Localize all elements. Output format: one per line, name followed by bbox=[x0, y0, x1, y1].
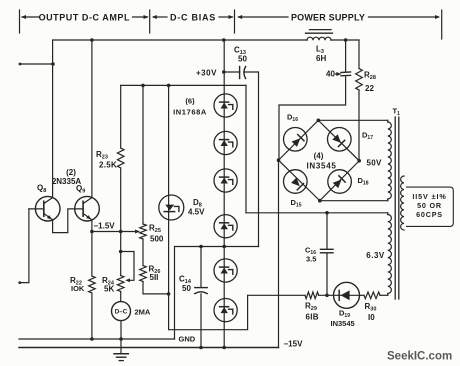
node -1.5V on Q9 emitter line bbox=[90, 230, 94, 234]
node top rail / zener string top bbox=[222, 38, 226, 42]
label C13 bbox=[234, 46, 246, 57]
section arrow OUTPUT D-C AMPL left bbox=[21, 15, 40, 19]
svg-text:I0: I0 bbox=[368, 313, 375, 322]
wire top rail right of L3 bbox=[331, 39, 359, 41]
diode D15 bbox=[284, 170, 308, 194]
node +30V on zener column bbox=[222, 70, 226, 74]
label 50 (C14 value) bbox=[182, 284, 191, 293]
svg-text:−1.5V: −1.5V bbox=[94, 222, 116, 231]
node -1.5V / R23 R24 column bbox=[119, 230, 123, 234]
node C16 bottom / R29 D19 junction bbox=[325, 294, 329, 298]
node input stub / Q8 collector line bbox=[51, 62, 55, 66]
svg-text:(2): (2) bbox=[66, 168, 76, 177]
ground bbox=[114, 354, 128, 361]
label 6H bbox=[316, 54, 326, 63]
wire C16 top lead bbox=[326, 213, 328, 249]
label R29 bbox=[305, 302, 317, 313]
svg-text:GND: GND bbox=[179, 335, 196, 344]
wire bridge arm D16 bbox=[279, 120, 319, 160]
wire D8 column bbox=[168, 85, 170, 294]
wire -15V rail up to bridge left vertex bbox=[278, 160, 280, 347]
capacitor C13 bbox=[240, 67, 246, 79]
node zener tap / bias line bbox=[222, 245, 226, 249]
node top rail / Q9 collector bbox=[90, 38, 94, 42]
label 2MA bbox=[135, 308, 151, 317]
wire R26 bottom lead bbox=[143, 282, 169, 294]
svg-text:SeekIC.com: SeekIC.com bbox=[387, 351, 452, 363]
capacitor 40uF plates bbox=[341, 72, 351, 76]
wire R25 top lead bbox=[142, 85, 144, 224]
wire 40uF cap bottom lead to bridge left vertex bbox=[279, 77, 346, 160]
zener diode (string #2) bbox=[214, 131, 237, 154]
label 2.5K bbox=[99, 161, 117, 170]
label R25 bbox=[149, 224, 161, 235]
svg-text:3.5: 3.5 bbox=[306, 255, 316, 264]
watermark SeekIC.com bbox=[387, 351, 452, 363]
label 1N3545 (D19) bbox=[331, 319, 355, 328]
svg-text:6.3V: 6.3V bbox=[366, 251, 385, 260]
svg-text:50: 50 bbox=[238, 55, 247, 64]
svg-text:D–C: D–C bbox=[115, 309, 128, 316]
zener diode (string #6) bbox=[214, 299, 237, 322]
svg-text:+30V: +30V bbox=[196, 69, 217, 78]
svg-text:22: 22 bbox=[365, 84, 374, 93]
wire 40uF cap top lead bbox=[345, 40, 347, 72]
label 22 bbox=[365, 84, 374, 93]
diode D18 bbox=[328, 170, 352, 194]
label R30 bbox=[365, 302, 377, 313]
svg-text:(4): (4) bbox=[314, 152, 324, 161]
label L3 bbox=[316, 45, 324, 56]
section tick right bbox=[441, 10, 443, 39]
wire C14 top lead bbox=[200, 247, 202, 288]
wire Q8 collector lead bbox=[52, 40, 54, 198]
node bridge left vertex bbox=[277, 158, 281, 162]
label R22 bbox=[70, 276, 82, 287]
node R24 wiper loop top bbox=[119, 250, 123, 254]
wire bias rail right side down bbox=[245, 85, 247, 212]
svg-text:2.5K: 2.5K bbox=[99, 161, 117, 170]
label 4.5V bbox=[188, 208, 205, 217]
label 115V ±1% bbox=[412, 192, 446, 201]
label C14 bbox=[179, 275, 192, 286]
winding 115V primary bbox=[401, 176, 404, 230]
label -1.5V bbox=[94, 222, 116, 231]
wire R23 bottom lead bbox=[120, 168, 122, 232]
label R24 bbox=[102, 276, 115, 287]
wire bridge arm D17 bbox=[318, 120, 359, 161]
node bias rail / D8 column bbox=[167, 84, 171, 88]
svg-text:50 OR: 50 OR bbox=[417, 201, 442, 210]
label box 115V bbox=[407, 187, 454, 226]
resistor R26 bbox=[140, 266, 147, 282]
diode D17 bbox=[328, 128, 352, 152]
svg-text:5K: 5K bbox=[104, 285, 114, 294]
svg-text:IN3545: IN3545 bbox=[307, 162, 337, 171]
label 1N3545 (bridge) bbox=[307, 162, 337, 171]
section arrow POWER SUPPLY left bbox=[237, 15, 288, 19]
wire -1.5V rail with wiper arrow into R25 bbox=[92, 230, 140, 234]
resistor R30 bbox=[364, 292, 380, 299]
wire zener string column bbox=[223, 40, 225, 348]
wire R29 left lead bbox=[248, 294, 305, 296]
wire R25-R26 link bbox=[142, 239, 144, 266]
label D19 bbox=[339, 309, 350, 320]
zener diode (string #1) bbox=[214, 94, 237, 117]
svg-text:4.5V: 4.5V bbox=[188, 208, 205, 217]
wire bias line y246 (C13 to GND rail A) bbox=[175, 247, 259, 340]
wire top rail left of L3 bbox=[53, 39, 307, 41]
section tick middle-right bbox=[234, 10, 236, 33]
svg-text:(6): (6) bbox=[185, 97, 195, 106]
label (6) bbox=[185, 97, 195, 106]
label 40 with arrow bbox=[326, 70, 341, 79]
label 50V bbox=[367, 159, 382, 168]
label D18 bbox=[358, 176, 369, 187]
wire D19 to R30 bbox=[360, 294, 365, 296]
svg-text:5II: 5II bbox=[150, 273, 159, 282]
wire meter bottom lead bbox=[120, 321, 122, 339]
node R22 on GND rail bbox=[90, 337, 94, 341]
node bridge bottom vertex bbox=[318, 199, 322, 203]
label 50 (C13 value) bbox=[238, 55, 247, 64]
svg-text:IN1768A: IN1768A bbox=[173, 108, 207, 117]
wire +30V node to C13 bbox=[224, 71, 240, 73]
wire Q8 base down-left stub bbox=[18, 209, 29, 284]
inductor L3 bbox=[306, 30, 333, 41]
svg-text:60CPS: 60CPS bbox=[416, 210, 443, 219]
wire C16 bottom lead bbox=[326, 254, 328, 295]
wire R29 to D19 bbox=[319, 294, 334, 296]
diode D16 bbox=[284, 128, 308, 152]
section arrow POWER SUPPLY right bbox=[369, 15, 441, 19]
label D-C BIAS bbox=[170, 13, 216, 23]
wire R24 wiper loop bbox=[121, 252, 134, 283]
wire R22 bottom lead bbox=[91, 293, 93, 339]
winding 6.3V secondary bbox=[388, 213, 392, 295]
wire bridge top vertex to 50V winding top bbox=[318, 119, 388, 121]
svg-text:6IB: 6IB bbox=[306, 313, 319, 322]
wire R28 top lead bbox=[358, 40, 360, 69]
wire input stub top-left bbox=[19, 63, 53, 66]
section arrow D-C BIAS right bbox=[219, 15, 234, 19]
wire Q8 emitter to Q9 base bbox=[53, 209, 84, 233]
svg-text:II5V ±I%: II5V ±I% bbox=[412, 192, 446, 201]
label +30V bbox=[196, 69, 217, 78]
node meter on GND rail bbox=[119, 337, 123, 341]
section arrow OUTPUT D-C AMPL right bbox=[133, 15, 149, 19]
wire C14 bottom lead bbox=[200, 294, 202, 348]
node C14 bottom on -15V rail bbox=[199, 346, 203, 350]
svg-text:IOK: IOK bbox=[71, 284, 85, 293]
meter D-C 2MA bbox=[112, 302, 131, 321]
node bias rail / R25 column bbox=[141, 84, 145, 88]
node D8 / R26 junction bbox=[167, 292, 171, 296]
wire bridge arm D15 bbox=[279, 160, 320, 201]
svg-text:50: 50 bbox=[182, 284, 191, 293]
node bridge top vertex bbox=[317, 119, 321, 123]
wire Q9 emitter lead bbox=[91, 220, 93, 276]
label 2N335A bbox=[52, 177, 82, 186]
label R28 bbox=[364, 71, 376, 82]
svg-text:6H: 6H bbox=[316, 54, 326, 63]
section tick left bbox=[19, 10, 21, 33]
wire GND jog line bbox=[169, 294, 248, 330]
svg-text:2MA: 2MA bbox=[135, 308, 151, 317]
wire C13 right lead down bbox=[245, 72, 259, 247]
label R26 bbox=[149, 265, 161, 276]
winding 50V secondary bbox=[388, 120, 392, 200]
label R23 bbox=[96, 150, 108, 161]
label -15V bbox=[284, 340, 304, 349]
wire GND rail bbox=[19, 338, 175, 340]
node 40uF tap on top rail bbox=[344, 38, 348, 42]
zener diode (string #5) bbox=[214, 259, 237, 282]
wire R24 bottom lead to meter bbox=[120, 292, 122, 302]
label 50 OR bbox=[417, 201, 442, 210]
zener diode (string #4) bbox=[214, 215, 237, 238]
wire -15V rail bbox=[19, 347, 279, 349]
section arrow D-C BIAS left bbox=[152, 15, 167, 19]
svg-text:IN3545: IN3545 bbox=[331, 319, 355, 328]
svg-text:D-C BIAS: D-C BIAS bbox=[170, 13, 216, 23]
label D8 bbox=[193, 198, 202, 209]
label D17 bbox=[362, 131, 373, 142]
wire R30 to 6.3V winding bottom bbox=[380, 294, 388, 296]
label OUTPUT D-C AMPL bbox=[39, 13, 130, 23]
zener diode D8 bbox=[159, 195, 184, 220]
label T1 bbox=[393, 107, 401, 118]
resistor R24 bbox=[117, 276, 124, 292]
capacitor C14 bbox=[195, 288, 207, 294]
transistor Q8 bbox=[35, 196, 60, 221]
svg-text:50V: 50V bbox=[367, 159, 382, 168]
resistor R22 bbox=[89, 276, 96, 293]
label 511 bbox=[150, 273, 159, 282]
capacitor C16 bbox=[321, 249, 334, 253]
label 6.3V bbox=[366, 251, 385, 260]
node zener string bottom on -15V rail bbox=[222, 346, 226, 350]
svg-text:500: 500 bbox=[150, 235, 164, 244]
label 10 bbox=[368, 313, 375, 322]
svg-text:−15V: −15V bbox=[284, 340, 304, 349]
label Q8 bbox=[37, 184, 46, 195]
wire bridge arm D18 bbox=[320, 161, 359, 201]
label 5K bbox=[104, 285, 114, 294]
svg-text:POWER SUPPLY: POWER SUPPLY bbox=[291, 13, 365, 23]
wire bridge bottom vertex to 50V winding bottom bbox=[320, 200, 388, 202]
label D16 bbox=[287, 113, 298, 124]
resistor R23 bbox=[117, 148, 124, 168]
label Q9 bbox=[76, 184, 85, 195]
label D15 bbox=[291, 198, 302, 209]
section tick middle-left bbox=[149, 10, 151, 33]
wire bias rail y85 bbox=[121, 84, 246, 86]
diode D19 bbox=[334, 282, 360, 308]
svg-text:OUTPUT D-C AMPL: OUTPUT D-C AMPL bbox=[39, 13, 130, 23]
wire Q8 base lead bbox=[29, 208, 44, 210]
wire Q9 collector lead bbox=[91, 40, 93, 198]
label C16 bbox=[305, 246, 316, 257]
label 500 bbox=[150, 235, 164, 244]
wire R24 top lead bbox=[120, 232, 122, 276]
label 1N1768A bbox=[173, 108, 207, 117]
wire 6.3V winding top line bbox=[246, 212, 388, 214]
label 10K bbox=[71, 284, 85, 293]
transformer T1 core bbox=[395, 117, 399, 299]
wire R23 top lead bbox=[120, 85, 122, 148]
resistor R29 bbox=[305, 292, 319, 299]
wire R28 bottom lead to bridge right vertex bbox=[358, 90, 360, 161]
label (4) bbox=[314, 152, 324, 161]
label 61B bbox=[306, 313, 319, 322]
label (2) bbox=[66, 168, 76, 177]
label 3.5 (C16 value) bbox=[306, 255, 316, 264]
transistor Q9 bbox=[75, 196, 100, 221]
node C16 top bbox=[325, 211, 329, 215]
resistor R25 (pot) bbox=[140, 224, 147, 239]
node bridge right vertex bbox=[357, 159, 361, 163]
node C14 top on bias line bbox=[199, 245, 203, 249]
svg-text:40: 40 bbox=[326, 70, 335, 79]
label POWER SUPPLY bbox=[291, 13, 365, 23]
zener diode (string #3) bbox=[214, 169, 237, 192]
wire ground symbol lead bbox=[120, 339, 122, 354]
resistor R28 bbox=[356, 69, 363, 91]
label GND bbox=[179, 335, 196, 344]
label 60CPS bbox=[416, 210, 443, 219]
